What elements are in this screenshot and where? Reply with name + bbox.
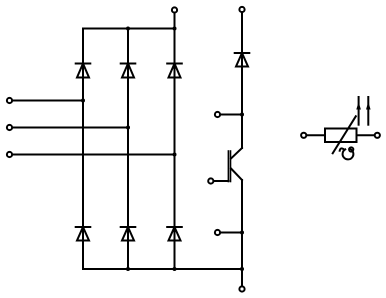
thermistor R1 arrow 2 (367, 97, 369, 125)
transistor T1 body bar (230, 151, 232, 182)
node AC2 / leg2 (126, 126, 130, 130)
node bottom bus / chopper (240, 267, 244, 271)
terminal AC3 (7, 152, 12, 157)
node AC1 / leg1 (81, 99, 85, 103)
transistor T1 gate bar (227, 151, 229, 182)
thermistor R1 (NTC) (301, 97, 380, 159)
node aux emitter / chopper (240, 231, 244, 235)
diode D3 (upper, leg3) (167, 64, 182, 78)
diode D4 (lower, leg1) (76, 227, 91, 241)
terminal aux collector (215, 112, 220, 117)
node AC3 / leg3 (173, 153, 177, 157)
diode D2 (upper, leg2) (121, 64, 136, 78)
terminal thermistor right (375, 133, 380, 138)
transistor T1 (IGBT) (228, 148, 242, 182)
thermistor R1 diagonal stroke (333, 116, 356, 153)
terminal DC+ (top) (172, 7, 177, 12)
wire chopper upper vertical (241, 12, 243, 148)
thermistor R1 theta label (340, 147, 354, 159)
terminal AC2 (7, 125, 12, 130)
wire gate stub (214, 180, 229, 182)
wire aux collector stub (220, 114, 242, 116)
node bottom bus / leg3 (173, 267, 177, 271)
transistor T1 emitter lead (231, 169, 242, 181)
wire AC input 2 (13, 127, 128, 129)
wire bottom DC- bus (83, 268, 242, 270)
terminal thermistor left (301, 133, 306, 138)
diode D6 (lower, leg3) (167, 227, 182, 241)
terminal gate (208, 178, 213, 183)
node bottom bus / leg2 (126, 267, 130, 271)
thermistor R1 arrow 1 (358, 97, 360, 125)
wire aux emitter stub (220, 232, 242, 234)
wire AC input 3 (13, 154, 175, 156)
wire phase leg 1 vertical (82, 29, 84, 270)
terminal chopper top (239, 7, 244, 12)
wire AC input 1 (13, 100, 83, 102)
wire phase leg 2 vertical (127, 29, 129, 270)
wire phase leg 3 vertical (174, 13, 176, 269)
terminal aux emitter (215, 230, 220, 235)
node top bus / leg2 (126, 27, 130, 31)
terminal AC1 (7, 98, 12, 103)
wire top DC+ bus (83, 28, 175, 30)
diode D1 (upper, leg1) (76, 64, 91, 78)
thermistor R1 body (325, 129, 357, 143)
wire chopper lower vertical (241, 180, 243, 286)
terminal DC- (bottom) (239, 286, 244, 291)
wire thermistor right (357, 134, 375, 136)
diode D5 (lower, leg2) (121, 227, 136, 241)
node aux collector / chopper (240, 113, 244, 117)
diode D7 (chopper series diode) (235, 53, 250, 67)
node top bus / leg3 (173, 27, 177, 31)
transistor T1 collector lead (231, 148, 242, 159)
wire thermistor left (307, 134, 326, 136)
